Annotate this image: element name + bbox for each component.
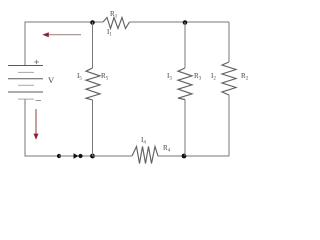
svg-text:V: V xyxy=(48,75,55,85)
wire bottom-right segment xyxy=(158,155,229,157)
resistor R5 xyxy=(86,68,100,100)
wire R5 branch top stem xyxy=(92,22,94,68)
resistor R2 xyxy=(222,62,236,95)
node B (junction of R3 branch with top wire) xyxy=(183,20,188,25)
wire right stem (bottom) xyxy=(228,95,230,156)
resistor R4 xyxy=(132,147,158,164)
battery V (3 cells: long/short plates) xyxy=(8,66,43,100)
wire R3 branch bottom stem xyxy=(184,100,186,157)
wire R5 branch bottom stem xyxy=(92,100,94,156)
node D (junction of R3 branch with bottom wire) xyxy=(182,154,187,159)
current arrowhead (black, pointing right on bottom wire) xyxy=(74,153,79,158)
label - (battery negative) xyxy=(36,100,42,102)
wire top-right segment xyxy=(130,21,230,23)
resistor R1 xyxy=(103,18,130,29)
node C (junction of R5 branch with bottom wire) xyxy=(90,154,95,159)
label + (battery positive) xyxy=(34,60,39,64)
wire R3 branch top stem xyxy=(184,22,186,68)
wire top-left segment xyxy=(25,22,103,66)
current arrow I1 (red, pointing left) xyxy=(42,32,81,37)
node A (junction of R5 branch with top wire) xyxy=(90,20,95,25)
node dot (bottom wire) xyxy=(57,154,61,158)
resistor R3 xyxy=(178,68,192,100)
node dot (bottom wire, right of arrowhead) xyxy=(78,154,82,158)
wire bottom-middle segment xyxy=(93,155,133,157)
current arrow (red, pointing down) xyxy=(34,109,39,140)
wire bottom segment (dot to dot) xyxy=(59,155,93,157)
wire left-bottom stem xyxy=(25,99,59,156)
wire right stem (top) xyxy=(228,22,230,62)
